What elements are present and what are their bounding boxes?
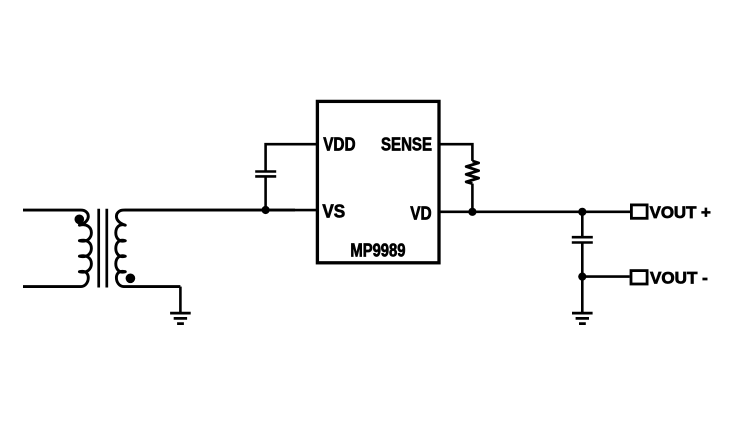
wire resistor R1 to VD node <box>471 184 474 212</box>
transformer T1 primary winding <box>23 210 91 287</box>
svg-text:VOUT -: VOUT - <box>650 268 708 287</box>
wire capacitor C1 to VS node <box>264 176 267 210</box>
ground GND2 <box>572 313 593 324</box>
wire VD node to capacitor C2 <box>581 212 584 237</box>
ground GND1 <box>170 313 191 324</box>
junction dot node VS <box>262 206 270 214</box>
svg-text:VD: VD <box>410 204 431 224</box>
junction dot node VD-C2 <box>578 208 586 216</box>
wire VOUT- node to VOUT- terminal <box>582 275 629 278</box>
wire secondary top lead to VS pin <box>125 209 318 212</box>
transformer T1 secondary winding <box>116 210 295 287</box>
terminal square VOUT+ <box>631 205 647 218</box>
IC U1 MP9989 box <box>317 101 439 262</box>
resistor R1 <box>466 161 478 184</box>
transformer T1 secondary polarity dot <box>126 274 136 284</box>
wire SENSE pin to resistor R1 <box>439 144 473 161</box>
wire VDD pin to capacitor C1 <box>266 144 317 171</box>
junction dot node VD-R1 <box>468 208 476 216</box>
transformer T1 primary polarity dot <box>75 215 85 225</box>
transformer T1 core <box>99 209 107 288</box>
capacitor C1 <box>255 172 276 177</box>
svg-text:VDD: VDD <box>323 135 355 155</box>
svg-text:MP9989: MP9989 <box>350 241 405 261</box>
capacitor C2 <box>572 237 593 242</box>
svg-text:VS: VS <box>322 202 345 222</box>
terminal square VOUT- <box>631 271 647 284</box>
svg-text:SENSE: SENSE <box>381 135 432 155</box>
wire secondary bottom to ground <box>179 287 182 314</box>
wire VOUT- node to ground <box>581 277 584 314</box>
junction dot node VOUT- <box>578 273 586 281</box>
wire VD pin to VOUT+ terminal <box>439 211 631 214</box>
wire capacitor C2 to VOUT- node <box>581 243 584 277</box>
svg-text:VOUT +: VOUT + <box>650 203 712 222</box>
